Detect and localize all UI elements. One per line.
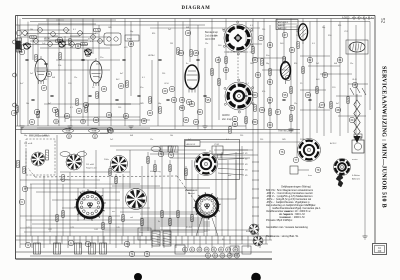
svg-text:TONE: TONE: [92, 131, 98, 133]
svg-text:dial: dial: [228, 175, 232, 177]
svg-text:10k: 10k: [26, 103, 29, 105]
svg-text:12n: 12n: [150, 139, 153, 141]
svg-text:2n2: 2n2: [316, 63, 319, 65]
svg-text:56p: 56p: [130, 31, 133, 33]
svg-text:820: 820: [338, 25, 341, 27]
svg-text:56p: 56p: [158, 103, 161, 105]
svg-text:Primaire 35pF 1935/pc: Primaire 35pF 1935/pc: [266, 218, 293, 222]
svg-text:AANSLT: AANSLT: [278, 24, 286, 27]
svg-text:Allstrom: Allstrom: [352, 178, 360, 181]
svg-text:2n2: 2n2: [168, 29, 171, 31]
svg-text:osc: osc: [112, 211, 115, 213]
svg-text:5750: 5750: [127, 39, 133, 41]
svg-text:20Hz: 20Hz: [104, 159, 109, 161]
svg-text:10k: 10k: [30, 29, 33, 31]
svg-text:220V: 220V: [300, 139, 305, 141]
svg-text:10k: 10k: [318, 107, 321, 109]
svg-text:AM tuning: AM tuning: [60, 178, 70, 181]
svg-text:6k8: 6k8: [334, 63, 337, 65]
svg-text:2n2: 2n2: [250, 103, 253, 105]
svg-text:UL41: UL41: [352, 79, 358, 81]
svg-text:0.1: 0.1: [250, 25, 253, 27]
svg-text:4n7: 4n7: [222, 29, 225, 31]
svg-text:56p: 56p: [24, 135, 27, 137]
svg-text:250: 250: [262, 29, 265, 31]
svg-text:2M: 2M: [170, 43, 173, 45]
svg-text:osc: osc: [70, 47, 73, 49]
svg-text:1M5: 1M5: [296, 31, 300, 33]
svg-text:A.5000: A.5000: [342, 17, 350, 20]
svg-text:DIAGRAM: DIAGRAM: [182, 6, 211, 11]
svg-text:4n7: 4n7: [336, 103, 339, 105]
svg-text:UY42: UY42: [214, 144, 220, 146]
svg-text:M5: M5: [245, 175, 248, 177]
svg-text:250: 250: [162, 73, 165, 75]
svg-text:12n: 12n: [74, 77, 77, 79]
svg-text:820: 820: [152, 33, 155, 35]
svg-text:52: 52: [380, 18, 385, 24]
svg-text:Regelm.afst: Regelm.afst: [86, 167, 97, 170]
svg-text:12n: 12n: [350, 63, 353, 65]
svg-text:250: 250: [118, 107, 121, 109]
svg-text:250: 250: [260, 139, 263, 141]
svg-text:Bandenknop: Bandenknop: [205, 32, 219, 34]
svg-text:6k8: 6k8: [186, 27, 189, 29]
svg-text:250: 250: [95, 33, 98, 35]
svg-text:AM/FM sw: AM/FM sw: [185, 189, 195, 192]
svg-text:6k8: 6k8: [130, 135, 133, 137]
svg-text:1M5: 1M5: [250, 63, 254, 65]
svg-text:AM 9 V88: AM 9 V88: [205, 38, 216, 41]
svg-text:HFPAJ: HFPAJ: [148, 54, 154, 57]
svg-text:afst. knop: afst. knop: [222, 118, 233, 121]
svg-text:0.1: 0.1: [226, 139, 229, 141]
svg-text:10k: 10k: [98, 77, 101, 79]
svg-text:AARD 52: AARD 52: [278, 27, 287, 30]
svg-text:1M5: 1M5: [282, 139, 286, 141]
svg-text:10k: 10k: [170, 135, 173, 137]
svg-text:M4: M4: [245, 170, 248, 172]
svg-text:2n2: 2n2: [30, 73, 33, 75]
svg-text:4n7: 4n7: [188, 139, 191, 141]
svg-text:coil: coil: [130, 217, 134, 219]
svg-text:1M5: 1M5: [140, 103, 144, 105]
svg-text:4n7: 4n7: [120, 73, 123, 75]
svg-text:201 mkB: 201 mkB: [24, 143, 33, 145]
svg-text:201 mkB: 201 mkB: [86, 164, 95, 166]
svg-text:4-Rohre: 4-Rohre: [352, 174, 361, 177]
svg-text:mains: mains: [352, 159, 358, 161]
svg-text:UCH: UCH: [164, 83, 169, 85]
svg-text:820: 820: [180, 107, 183, 109]
svg-text:M3: M3: [245, 164, 248, 166]
svg-text:6k8: 6k8: [268, 103, 271, 105]
svg-text:0.1: 0.1: [73, 29, 76, 31]
svg-text:1M: 1M: [44, 79, 47, 81]
svg-text:AM-GOLF: AM-GOLF: [187, 143, 196, 146]
svg-text:56p: 56p: [322, 27, 325, 29]
svg-text:TONE: TONE: [66, 131, 72, 133]
svg-text:250: 250: [240, 135, 243, 137]
svg-text:Gemiddler niet / meware Aans: Gemiddler niet / meware Aanstelung: [266, 225, 308, 229]
svg-text:IF 452: IF 452: [186, 227, 193, 229]
svg-text:Voltage reg: Voltage reg: [150, 170, 161, 173]
svg-text:12n: 12n: [205, 43, 208, 45]
svg-text:kc/s: kc/s: [204, 231, 208, 233]
svg-text:201 mkF: 201 mkF: [82, 191, 91, 193]
svg-text:Gelijkspanningen (Wiring): Gelijkspanningen (Wiring): [281, 185, 311, 189]
svg-text:0.1: 0.1: [142, 77, 145, 79]
svg-text:820: 820: [294, 63, 297, 65]
svg-text:0.1: 0.1: [70, 107, 73, 109]
svg-text:M1: M1: [245, 153, 248, 155]
svg-text:0.1: 0.1: [354, 103, 357, 105]
svg-text:2n2: 2n2: [110, 139, 113, 141]
svg-text:AM/FM: AM/FM: [222, 114, 229, 117]
svg-text:4n7: 4n7: [48, 103, 51, 105]
svg-text:M2: M2: [245, 159, 248, 161]
svg-text:ANT-GOLF: ANT-GOLF: [278, 21, 289, 24]
svg-text:OF: OF: [378, 249, 382, 253]
svg-text:56p: 56p: [266, 63, 269, 65]
svg-text:MFPAJ: MFPAJ: [44, 37, 50, 40]
svg-text:6k8: 6k8: [52, 77, 55, 79]
svg-text:1M5: 1M5: [108, 27, 112, 29]
svg-text:12n: 12n: [294, 103, 297, 105]
svg-text:820: 820: [44, 135, 47, 137]
svg-text:10k: 10k: [214, 35, 217, 37]
svg-text:4n7: 4n7: [48, 33, 51, 35]
svg-text:SERVICEAANWIJZING : MINI—JUNIO: SERVICEAANWIJZING : MINI—JUNIOR 510 B: [381, 66, 387, 208]
svg-text:600 v.AM: 600 v.AM: [246, 230, 255, 233]
svg-text:AC/DC: AC/DC: [330, 142, 337, 145]
